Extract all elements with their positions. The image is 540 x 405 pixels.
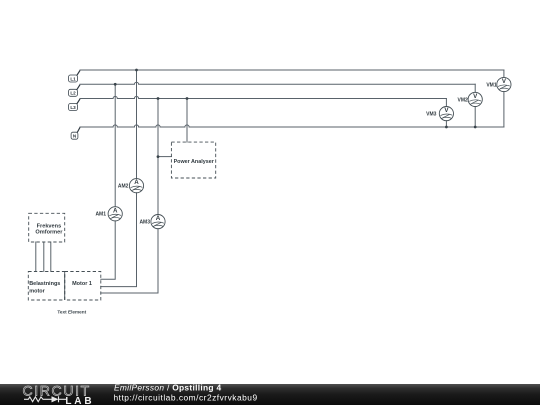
wire VM2 drop <box>474 84 476 127</box>
svg-text:Text Element: Text Element <box>57 309 86 314</box>
voltmeter VM1 <box>497 77 511 91</box>
voltmeter VM3 <box>439 107 453 121</box>
svg-text:VM1: VM1 <box>486 82 497 88</box>
box Frekvens Omformer <box>29 213 65 242</box>
node junction N/VM2 <box>474 126 477 129</box>
svg-text:Frekvens: Frekvens <box>37 223 62 229</box>
svg-text:VM2: VM2 <box>458 97 469 103</box>
svg-text:L3: L3 <box>70 105 76 110</box>
ammeter AM2 <box>129 179 143 193</box>
svg-text:AM2: AM2 <box>118 184 129 190</box>
wire AM1 column upper <box>114 84 116 206</box>
box Power Analyser <box>171 142 215 178</box>
wire Frekvens to Belastnings stub 3 <box>50 242 52 272</box>
wire AM3 column upper <box>157 99 159 215</box>
node junction L2/AM1 <box>114 83 117 86</box>
svg-text:AM1: AM1 <box>95 212 106 218</box>
svg-text:LAB: LAB <box>65 396 94 405</box>
net label L3 <box>69 99 80 111</box>
wire AM1 column lower to motor <box>101 221 115 279</box>
svg-text:Belastnings: Belastnings <box>29 281 60 287</box>
footer bar <box>0 384 540 405</box>
wire to Power Analyser left <box>158 156 171 158</box>
wire L1 bus <box>80 69 504 71</box>
svg-text:A: A <box>156 215 161 222</box>
wire L3 bus with hops <box>80 96 446 98</box>
wire VM1 drop <box>503 70 505 127</box>
ammeter AM1 <box>108 207 122 221</box>
wire AM2 column lower to motor <box>101 193 137 287</box>
wire Frekvens to Belastnings stub 1 <box>35 242 37 272</box>
voltmeter VM2 <box>468 92 482 106</box>
svg-text:L1: L1 <box>70 76 76 81</box>
wire VM3 drop <box>445 99 447 128</box>
svg-text:Power Analyser: Power Analyser <box>174 159 215 165</box>
node junction L3/PA <box>186 97 189 100</box>
svg-text:A: A <box>134 179 139 186</box>
svg-text:A: A <box>113 207 118 214</box>
ammeter AM3 <box>151 215 165 229</box>
svg-text:V: V <box>502 78 507 85</box>
svg-text:AM3: AM3 <box>139 220 150 226</box>
svg-text:motor: motor <box>29 289 45 295</box>
svg-text:V: V <box>473 93 478 100</box>
net label L2 <box>69 85 80 97</box>
svg-text:VM3: VM3 <box>426 112 437 118</box>
svg-text:L2: L2 <box>70 91 76 96</box>
wire Frekvens to Belastnings stub 2 <box>43 242 45 272</box>
wire to Power Analyser top <box>186 99 188 143</box>
wire N bus with hops <box>80 125 504 127</box>
box Motor 1 <box>65 272 101 301</box>
node junction AM3/PA <box>157 155 160 158</box>
node junction L3/AM3 <box>157 97 160 100</box>
wire AM2 column upper <box>136 70 138 179</box>
net label L1 <box>69 70 80 82</box>
net label N <box>71 127 80 139</box>
svg-text:http://circuitlab.com/cr2zfvrv: http://circuitlab.com/cr2zfvrvkabu9 <box>114 393 258 403</box>
svg-text:V: V <box>444 107 449 114</box>
svg-text:Motor 1: Motor 1 <box>72 281 92 287</box>
node junction N/VM3 <box>445 126 448 129</box>
box Belastnings motor <box>28 272 64 301</box>
svg-text:EmilPersson / Opstilling 4: EmilPersson / Opstilling 4 <box>114 382 221 392</box>
wire L2 bus with hop <box>80 82 475 84</box>
node junction L1/AM2 <box>135 69 138 72</box>
svg-text:Omformer: Omformer <box>35 230 63 236</box>
wire AM3 column lower to motor <box>101 229 158 293</box>
logo resistor-diode glyph <box>24 396 66 402</box>
